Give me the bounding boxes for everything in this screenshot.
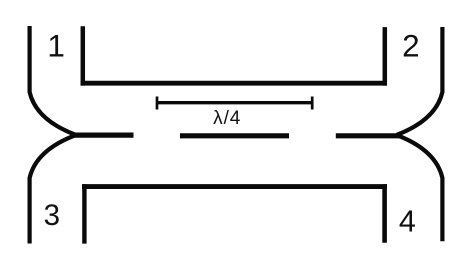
port 3 feed line (bottom-left curved trace) xyxy=(30,135,76,244)
bottom coupled line horizontal xyxy=(82,184,387,189)
top coupled line horizontal xyxy=(81,81,388,86)
port 2 feed line (top-right curved trace) xyxy=(397,27,443,135)
svg-text:λ/4: λ/4 xyxy=(213,108,241,129)
svg-text:1: 1 xyxy=(47,27,65,63)
bottom coupled line right vertical xyxy=(382,184,387,243)
left main-line stub xyxy=(71,133,134,138)
bottom coupled line left vertical xyxy=(82,184,86,244)
top coupled line right vertical xyxy=(383,27,388,86)
right main-line stub xyxy=(336,133,402,138)
dimension line lambda/4 xyxy=(157,101,312,104)
dimension left tick xyxy=(156,97,159,110)
svg-text:3: 3 xyxy=(44,199,60,232)
dimension right tick xyxy=(311,97,314,110)
port 4 feed line (bottom-right curved trace) xyxy=(397,135,443,241)
svg-text:4: 4 xyxy=(399,205,416,239)
top coupled line left vertical xyxy=(81,26,86,85)
svg-text:2: 2 xyxy=(402,28,420,64)
center main-line segment xyxy=(180,133,289,138)
port 1 feed line (top-left curved trace) xyxy=(30,26,76,135)
